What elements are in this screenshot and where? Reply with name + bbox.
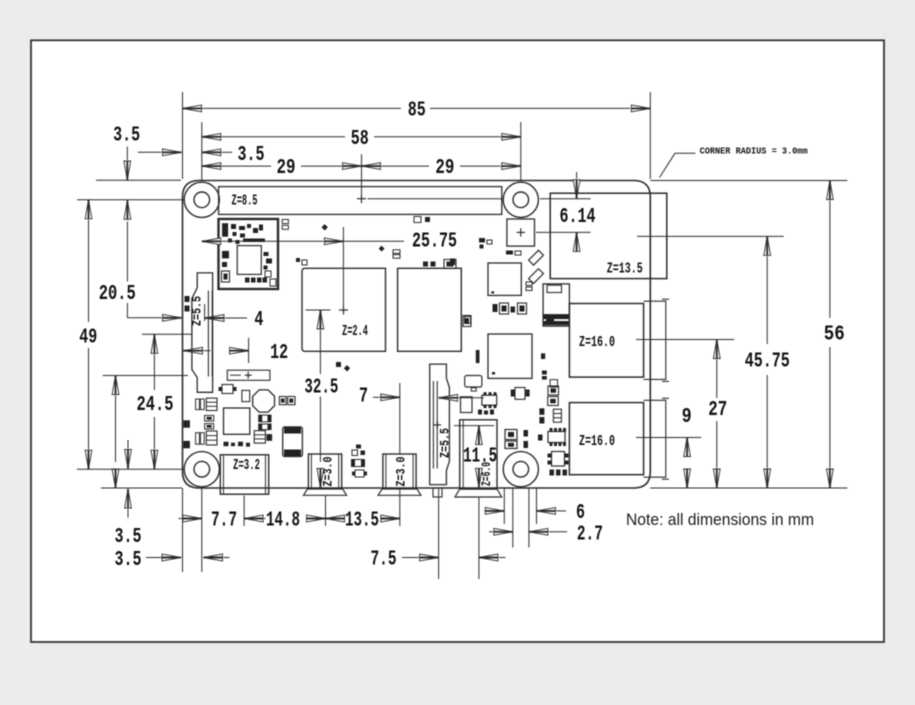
svg-text:Z=2.4: Z=2.4 <box>342 323 368 340</box>
dimension 3.5 top-left vertical <box>113 124 140 220</box>
svg-text:7.7: 7.7 <box>211 509 237 533</box>
mounting hole top-right <box>503 182 538 217</box>
svg-text:58: 58 <box>351 127 369 151</box>
svg-text:85: 85 <box>408 99 426 123</box>
Ethernet jack Z=13.5 <box>550 193 667 278</box>
AV jack center extension below board <box>478 497 480 579</box>
dimension 4 DSI <box>205 304 264 332</box>
svg-text:Z=13.5: Z=13.5 <box>607 261 643 278</box>
mounting hole bottom-left <box>184 452 219 487</box>
dimension 6 bottom right <box>484 488 585 525</box>
pads right of wireless module <box>282 220 400 259</box>
dimension 45.75 right <box>637 236 790 488</box>
svg-text:25.75: 25.75 <box>412 229 457 253</box>
SoC BCM2837 Z=2.4 <box>302 268 386 351</box>
dimension 29 left segment <box>202 156 362 180</box>
small parts above SoC <box>296 258 307 265</box>
svg-text:Z=5.5: Z=5.5 <box>437 428 452 458</box>
svg-text:3.5: 3.5 <box>115 525 142 549</box>
connector below ethernet <box>543 284 569 326</box>
board top edge extension left <box>96 179 181 181</box>
pads left of LAN IC <box>479 238 492 249</box>
pads right of LAN IC <box>526 282 532 291</box>
board outline PCB 85x56 <box>183 181 651 489</box>
dimension 9 right <box>636 405 701 488</box>
component cluster near bottom-right hole <box>356 428 569 476</box>
svg-text:Z=16.0: Z=16.0 <box>579 334 615 351</box>
dimension 58 top <box>202 122 521 181</box>
dimension 2.7 bottom right <box>489 488 603 548</box>
hole center extension left top <box>77 199 184 201</box>
dimension 3.5 top horizontal <box>138 143 265 167</box>
board bottom edge extension left <box>101 487 182 489</box>
drawing sheet <box>31 40 884 642</box>
electrolytic capacitor <box>283 427 303 457</box>
dimension 29 right segment <box>362 156 521 180</box>
dimension 85 top <box>183 92 651 179</box>
parts right of CSI connector <box>461 350 562 424</box>
PMIC power IC <box>224 408 251 447</box>
dimension 3.5 bottom-left vertical <box>115 440 142 549</box>
svg-text:7.5: 7.5 <box>371 548 397 572</box>
extension lines bottom left <box>183 488 400 572</box>
svg-text:Z=3.0: Z=3.0 <box>394 456 409 486</box>
mounting hole bottom-right <box>503 452 538 487</box>
dimension chain 7.7 14.8 13.5 <box>179 509 400 533</box>
svg-text:32.5: 32.5 <box>304 375 338 399</box>
svg-text:Z=3.2: Z=3.2 <box>233 457 260 474</box>
svg-text:13.5: 13.5 <box>345 509 379 533</box>
AV multipole jack Z=6.0 <box>455 420 502 497</box>
diagonal capacitor C2 <box>529 269 544 284</box>
svg-text:Z=16.0: Z=16.0 <box>579 433 615 450</box>
svg-text:49: 49 <box>79 326 97 350</box>
svg-text:27: 27 <box>708 398 727 422</box>
svg-text:45.75: 45.75 <box>745 350 790 374</box>
dimension line left inner <box>112 376 119 489</box>
dimension 7 mid <box>359 383 484 454</box>
pads below SoC <box>336 362 350 371</box>
corner radius leader <box>660 145 808 177</box>
dimension 25.75 wifi to soc <box>202 227 457 306</box>
USB jack lower Z=16.0 <box>569 398 669 479</box>
board bottom edge extension right <box>650 487 847 489</box>
dimension 24.5 left <box>137 334 174 469</box>
svg-text:3.5: 3.5 <box>115 548 142 572</box>
svg-text:Z=8.5: Z=8.5 <box>232 192 258 209</box>
LAN controller IC <box>488 263 521 295</box>
J3 connector below WiFi <box>227 370 270 380</box>
svg-text:3.5: 3.5 <box>238 143 265 167</box>
diagonal capacitor C1 <box>529 250 544 265</box>
crystal oscillator <box>219 385 250 402</box>
dimension 7.5 bottom <box>371 548 506 572</box>
svg-text:12: 12 <box>270 341 288 365</box>
dimension 56 right <box>824 181 845 489</box>
HDMI connector Z=3.0 <box>304 454 347 495</box>
SDRAM Z=2.4 neighbor <box>398 268 462 351</box>
dimension 12 <box>184 338 289 366</box>
dimension 27 right <box>636 340 734 489</box>
USB jack upper Z=16.0 <box>569 299 669 381</box>
micro USB power Z=3.2 <box>220 455 268 494</box>
svg-text:Z=5.5: Z=5.5 <box>189 296 204 326</box>
pads above RAM <box>423 260 456 269</box>
tick GPIO center <box>361 154 363 194</box>
svg-text:14.8: 14.8 <box>266 509 300 533</box>
dimension 11.5 camera <box>454 426 497 488</box>
dimension 6.14 PoE <box>536 172 596 251</box>
pads below PoE header <box>506 251 521 256</box>
component cluster left of PMIC <box>183 296 217 448</box>
pad right of RAM <box>465 317 471 324</box>
wireless module shield <box>219 219 279 289</box>
pads row below LAN IC <box>450 259 527 327</box>
svg-text:56: 56 <box>824 323 845 347</box>
reference line y375 <box>103 375 188 377</box>
PoE header with center mark <box>507 219 535 246</box>
svg-text:Note: all dimensions in mm: Note: all dimensions in mm <box>626 511 814 529</box>
DSI display connector Z=5.5 <box>189 273 212 392</box>
dimension 3.5 bottom horizontal <box>115 548 230 572</box>
svg-text:11.5: 11.5 <box>463 445 497 469</box>
svg-text:20.5: 20.5 <box>99 282 136 306</box>
camera connector CSI Z=5.5 <box>430 364 453 497</box>
svg-text:3.5: 3.5 <box>113 124 140 148</box>
power inductor octagon <box>253 390 275 412</box>
hole center extension left bottom <box>77 468 184 470</box>
svg-text:2.7: 2.7 <box>577 522 603 546</box>
DSI center mark line <box>142 333 192 335</box>
dimension 49 left <box>79 200 97 469</box>
CSI center extension below board <box>438 489 440 579</box>
svg-text:29: 29 <box>277 156 296 180</box>
pads above GPIO area mid <box>414 217 430 223</box>
mounting hole top-left <box>184 182 219 217</box>
GPIO header J8 Z=8.5 <box>219 187 502 215</box>
board top edge extension right <box>650 180 847 182</box>
dimension 32.5 vertical <box>304 310 338 488</box>
svg-text:4: 4 <box>254 308 263 332</box>
cluster between HDMI and AV <box>352 450 368 477</box>
svg-text:6.14: 6.14 <box>560 205 596 229</box>
dimension 20.5 left <box>99 222 182 322</box>
svg-text:7: 7 <box>359 385 368 409</box>
LAN7515 IC <box>488 334 532 378</box>
passives below inductor <box>254 415 272 443</box>
pads column above LAN7515 <box>476 350 480 362</box>
AV jack Z=3.0 <box>378 454 421 495</box>
svg-text:9: 9 <box>682 405 692 429</box>
svg-text:24.5: 24.5 <box>137 393 174 417</box>
pads right of inductor <box>279 397 295 405</box>
svg-text:29: 29 <box>435 156 454 180</box>
svg-text:CORNER RADIUS = 3.0mm: CORNER RADIUS = 3.0mm <box>700 145 808 156</box>
